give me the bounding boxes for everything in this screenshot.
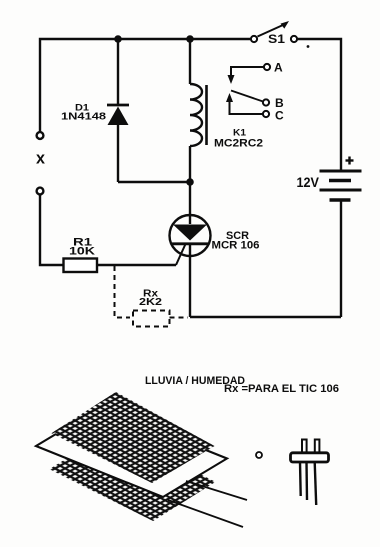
wire D1 bottom to node xyxy=(118,181,190,183)
node junction D1 top xyxy=(114,35,122,43)
relay contacts xyxy=(226,64,270,117)
diode D1 xyxy=(107,39,129,182)
wire X lower to R1 xyxy=(40,195,63,266)
svg-text:A: A xyxy=(274,61,283,75)
sensor wire upper xyxy=(186,481,247,500)
svg-text:1N4148: 1N4148 xyxy=(61,112,107,123)
relay coil K1 xyxy=(190,39,207,182)
wire top rail left xyxy=(40,39,250,132)
svg-text:S1: S1 xyxy=(268,34,286,46)
switch S1 xyxy=(251,21,310,48)
terminal small circle xyxy=(256,452,262,458)
label + xyxy=(346,157,354,165)
wire bottom rail xyxy=(190,316,341,318)
resistor R1 xyxy=(64,259,98,273)
svg-text:K1: K1 xyxy=(233,128,246,138)
svg-text:12V: 12V xyxy=(297,174,320,190)
svg-text:Rx =PARA EL TIC 106: Rx =PARA EL TIC 106 xyxy=(224,383,339,395)
terminal X upper xyxy=(37,132,44,139)
resistor Rx dashed branch xyxy=(115,266,189,327)
terminal X lower xyxy=(37,188,44,195)
SCR MCR106 xyxy=(170,182,211,317)
node junction K1 top xyxy=(186,35,194,43)
node junction coil bottom xyxy=(186,178,194,186)
TIC106 package xyxy=(291,440,329,506)
svg-text:C: C xyxy=(275,109,284,123)
sensor wire lower xyxy=(168,500,243,527)
svg-text:x: x xyxy=(36,149,46,168)
svg-text:2K2: 2K2 xyxy=(139,296,162,308)
battery 12V xyxy=(320,169,362,317)
sensor top mesh plate xyxy=(55,394,211,481)
svg-text:10K: 10K xyxy=(69,246,95,258)
sensor frame xyxy=(36,408,227,498)
wire R1 to gate xyxy=(97,264,176,266)
svg-text:MCR 106: MCR 106 xyxy=(212,240,260,252)
wire top rail right xyxy=(298,39,342,169)
svg-text:MC2RC2: MC2RC2 xyxy=(214,138,263,150)
sensor bottom mesh plate xyxy=(53,432,212,519)
